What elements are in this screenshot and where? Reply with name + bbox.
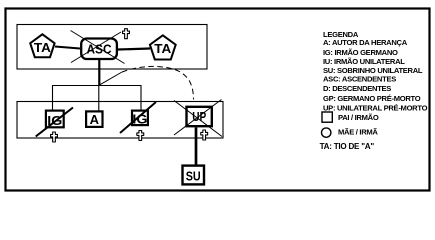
svg-text:ASC: ASC <box>87 42 112 56</box>
svg-text:TA: TA <box>154 41 172 56</box>
svg-text:IG: IG <box>132 112 147 127</box>
svg-text:PAI / IRMÃO: PAI / IRMÃO <box>338 113 379 122</box>
svg-text:UP: UP <box>192 109 206 124</box>
svg-text:SU: SU <box>186 168 201 183</box>
svg-text:TA: TA <box>34 40 52 55</box>
svg-text:GP: GERMANO PRÉ-MORTO: GP: GERMANO PRÉ-MORTO <box>323 94 421 103</box>
svg-text:ASC: ASCENDENTES: ASC: ASCENDENTES <box>323 75 396 84</box>
svg-text:A: AUTOR DA HERANÇA: A: AUTOR DA HERANÇA <box>323 38 408 47</box>
svg-text:IG: IRMÃO GERMANO: IG: IRMÃO GERMANO <box>323 48 398 57</box>
svg-text:IU: IRMÃO UNILATERAL: IU: IRMÃO UNILATERAL <box>323 57 405 66</box>
svg-text:A: A <box>90 112 100 127</box>
svg-text:MÃE / IRMÃ: MÃE / IRMÃ <box>338 128 378 137</box>
svg-text:UP: UNILATERAL PRÉ-MORTO: UP: UNILATERAL PRÉ-MORTO <box>323 104 428 113</box>
svg-text:D: DESCENDENTES: D: DESCENDENTES <box>323 84 391 93</box>
svg-text:TA: TIO DE "A": TA: TIO DE "A" <box>320 142 375 151</box>
